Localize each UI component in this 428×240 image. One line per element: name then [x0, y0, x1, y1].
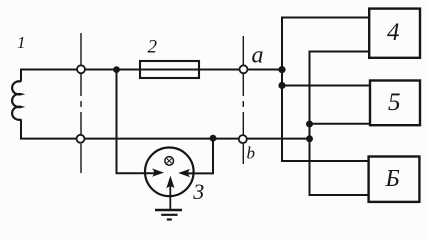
svg-text:Б: Б [385, 166, 400, 192]
svg-text:b: b [247, 144, 256, 163]
svg-text:1: 1 [17, 33, 26, 52]
svg-text:a: a [252, 43, 264, 69]
svg-text:4: 4 [387, 19, 400, 46]
svg-text:5: 5 [388, 89, 401, 116]
svg-text:2: 2 [148, 37, 158, 58]
svg-text:3: 3 [192, 179, 204, 204]
